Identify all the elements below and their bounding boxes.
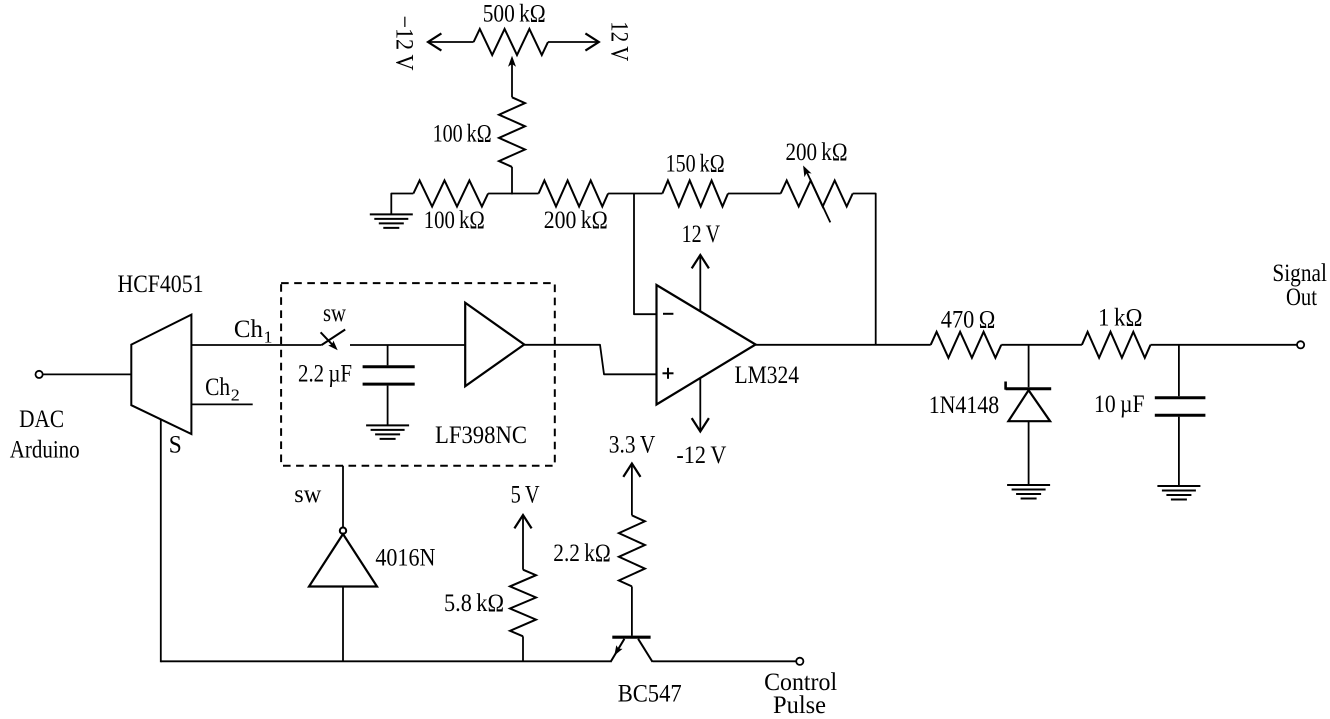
pot P2 200k body <box>781 181 853 207</box>
label 2.2k <box>553 540 611 567</box>
wire switch to buffer <box>350 344 465 346</box>
label LM324 <box>735 362 800 389</box>
resistor 100k vertical body <box>499 97 525 167</box>
wire collector to control terminal <box>653 660 797 662</box>
label 1N4148 <box>929 392 1000 419</box>
ground G1 (top left) <box>370 214 413 228</box>
wire S select vertical <box>160 419 162 662</box>
svg-text:100 kΩ: 100 kΩ <box>433 121 492 148</box>
wire 2.2k to transistor base <box>631 586 633 635</box>
label 5V <box>511 482 540 509</box>
label HCF4051 <box>118 271 204 298</box>
label Ch2 <box>205 374 240 405</box>
dashed box LF398 sample-hold <box>281 283 555 466</box>
svg-text:LF398NC: LF398NC <box>435 422 527 449</box>
svg-text:BC547: BC547 <box>618 681 682 708</box>
inverter U2 4016N triangle <box>309 534 377 587</box>
ground G3 (diode) <box>1007 485 1050 499</box>
terminal Control Pulse <box>796 658 803 665</box>
label Pulse <box>773 692 826 719</box>
label 150k value <box>666 151 725 178</box>
op-amp -12V supply arrow <box>692 378 709 431</box>
svg-text:LM324: LM324 <box>735 362 800 389</box>
capacitor C1 2.2uF <box>363 345 415 425</box>
label 200k pot value <box>786 139 848 166</box>
op-amp +12V supply arrow <box>692 255 709 311</box>
label 1k <box>1098 305 1143 332</box>
mux HCF4051 trapezoid <box>131 315 191 434</box>
switch SW arm <box>322 330 346 346</box>
svg-text:2.2 kΩ: 2.2 kΩ <box>553 540 611 567</box>
svg-text:10 µF: 10 µF <box>1094 391 1145 418</box>
svg-text:−12 V: −12 V <box>391 16 418 71</box>
transistor Q1 base bar <box>612 636 650 639</box>
label 5.8k <box>444 590 504 617</box>
svg-text:Arduino: Arduino <box>10 437 80 464</box>
wire 150k to pot 200k <box>728 193 781 195</box>
op-amp minus sign <box>663 313 673 315</box>
pot P2 wiper arrow <box>803 166 830 223</box>
ground G4 (output cap) <box>1157 486 1200 500</box>
wire node A segment (100k to 200k) <box>488 193 538 195</box>
label sw (4016 gate) <box>294 481 321 508</box>
wire inverter to bus <box>342 587 344 662</box>
svg-text:12 V: 12 V <box>606 21 633 61</box>
wire op-amp output <box>756 344 931 346</box>
label 10uF <box>1094 391 1145 418</box>
ground G2 (sample cap) <box>366 425 409 439</box>
svg-text:5.8 kΩ: 5.8 kΩ <box>444 590 504 617</box>
label 200k (horizontal) <box>544 207 608 234</box>
svg-text:470 Ω: 470 Ω <box>941 307 996 334</box>
buffer amp LF398 triangle <box>465 303 524 387</box>
label 12V supply (rotated) <box>606 21 633 61</box>
label LF398NC <box>435 422 527 449</box>
label Ch1 <box>234 316 273 347</box>
svg-text:5 V: 5 V <box>511 482 540 509</box>
resistor 150k body <box>662 181 728 207</box>
svg-text:2: 2 <box>231 386 240 405</box>
label 470 ohm <box>941 307 996 334</box>
svg-text:-12 V: -12 V <box>676 442 726 469</box>
op-amp plus sign <box>663 368 674 379</box>
label 100k (horizontal) <box>424 207 485 234</box>
svg-text:2.2 µF: 2.2 µF <box>298 361 352 388</box>
inverter U2 bubble <box>340 528 346 534</box>
svg-text:150 kΩ: 150 kΩ <box>666 151 725 178</box>
wire 100k vertical bottom lead <box>511 167 513 195</box>
svg-text:3.3 V: 3.3 V <box>609 432 656 459</box>
label 3.3V <box>609 432 656 459</box>
label Out <box>1286 284 1317 311</box>
svg-text:HCF4051: HCF4051 <box>118 271 204 298</box>
label sw (switch) <box>323 300 346 327</box>
resistor 2.2k body <box>619 515 645 586</box>
svg-text:sw: sw <box>294 481 321 508</box>
wire 5.8k to bus <box>522 636 524 661</box>
svg-text:1N4148: 1N4148 <box>929 392 1000 419</box>
svg-text:500 kΩ: 500 kΩ <box>483 1 546 28</box>
label 500k value <box>483 1 546 28</box>
pot P1 wiper arrow <box>508 56 516 98</box>
svg-text:100 kΩ: 100 kΩ <box>424 207 485 234</box>
diode D1 1N4148 <box>1006 345 1052 485</box>
wire Ch1 mux to switch <box>191 344 321 346</box>
label -12V op-amp supply <box>676 442 726 469</box>
svg-text:sw: sw <box>323 300 346 327</box>
resistor 200k body <box>539 181 609 207</box>
wire ground corner to 100k <box>391 194 413 215</box>
wire DAC to mux <box>43 373 132 375</box>
svg-text:Ch: Ch <box>234 316 263 343</box>
terminal DAC input <box>36 371 43 378</box>
resistor 1k body <box>1082 332 1151 358</box>
resistor 100k horizontal body <box>413 181 488 207</box>
svg-text:Pulse: Pulse <box>773 692 826 719</box>
transistor Q1 collector <box>638 639 652 662</box>
wire 1k to output terminal <box>1151 344 1298 346</box>
label -12V supply (rotated) <box>391 16 418 71</box>
label Signal <box>1272 260 1327 287</box>
wire box to inverter bubble <box>342 466 344 528</box>
label DAC <box>19 406 64 433</box>
terminal Signal Out <box>1297 341 1304 348</box>
resistor 5.8k body <box>510 570 536 637</box>
capacitor C2 10uF <box>1155 345 1206 486</box>
svg-text:S: S <box>169 432 182 459</box>
svg-text:200 kΩ: 200 kΩ <box>786 139 848 166</box>
label BC547 <box>618 681 682 708</box>
op-amp U1 LM324 triangle <box>657 285 756 405</box>
transistor Q1 emitter with arrow <box>611 639 625 662</box>
wire pot P1 left lead to -12V arrow <box>428 33 474 50</box>
pot P1 500k body <box>474 29 548 55</box>
label S select pin <box>169 432 182 459</box>
wire pot P2 to feedback corner <box>853 194 876 345</box>
wire bottom bus <box>161 660 612 662</box>
svg-text:Ch: Ch <box>205 374 230 401</box>
svg-text:12 V: 12 V <box>682 221 721 248</box>
svg-text:200 kΩ: 200 kΩ <box>544 207 608 234</box>
label Arduino <box>10 437 80 464</box>
wire Ch2 stub <box>191 403 252 405</box>
label 4016N <box>375 545 435 572</box>
svg-text:DAC: DAC <box>19 406 64 433</box>
label Control <box>764 669 837 696</box>
wire 5V arrow <box>514 515 531 570</box>
wire node to op-amp inverting input <box>634 194 657 315</box>
label 2.2uF <box>298 361 352 388</box>
svg-text:1 kΩ: 1 kΩ <box>1098 305 1143 332</box>
wire 470 to 1k <box>1001 344 1082 346</box>
wire buffer output with jog to op-amp + <box>524 345 656 375</box>
label 12V op-amp supply <box>682 221 721 248</box>
svg-text:1: 1 <box>264 328 273 347</box>
svg-text:4016N: 4016N <box>375 545 435 572</box>
wire 200k to 150k with tap down <box>608 193 662 195</box>
svg-text:Signal: Signal <box>1272 260 1327 287</box>
wire pot P1 right lead to 12V arrow <box>548 33 599 50</box>
label 100k (wiper resistor) <box>433 121 492 148</box>
wire 3.3V arrow <box>623 464 640 516</box>
switch SW closing arrow <box>321 332 338 350</box>
resistor 470 body <box>931 332 1002 358</box>
svg-text:Out: Out <box>1286 284 1317 311</box>
